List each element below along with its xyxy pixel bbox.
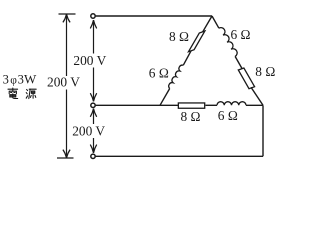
label 3φ3W source <box>3 72 37 87</box>
wire right vertical (node C down to bottom wire) <box>262 105 264 156</box>
svg-text:8 Ω: 8 Ω <box>255 64 275 79</box>
bottom leg: wire node B to resistor <box>160 104 178 106</box>
left leg: wire apex to resistor <box>203 16 213 32</box>
tick top <box>59 13 76 15</box>
inductor 6Ω (right leg) <box>219 28 237 57</box>
inductor 6Ω (left leg) <box>169 65 184 88</box>
svg-text:8 Ω: 8 Ω <box>169 29 189 44</box>
電 <box>8 88 18 90</box>
resistor 8Ω (right leg) <box>238 68 254 89</box>
right leg: wire resistor to node C <box>251 87 263 105</box>
resistor 8Ω (left leg) <box>189 31 205 52</box>
dimension line overall (left), with arrows and end ticks <box>57 14 76 158</box>
svg-text:8 Ω: 8 Ω <box>181 109 201 124</box>
svg-text:200 V: 200 V <box>72 124 105 139</box>
label 電源 (kanji drawn as strokes) <box>8 88 36 99</box>
terminal (bottom) <box>91 154 95 158</box>
inductor 6Ω (bottom leg) <box>217 102 246 106</box>
svg-text:W: W <box>24 72 37 87</box>
dimension line top-middle with arrows <box>90 20 96 102</box>
shaft lower <box>66 90 68 159</box>
arrow up <box>63 14 70 22</box>
arrow down <box>63 150 70 158</box>
left leg: wire inductor to node B <box>160 89 170 106</box>
shaft upper <box>66 14 68 76</box>
wire bottom (bottom terminal to node C) <box>96 155 263 157</box>
svg-text:3: 3 <box>18 73 24 87</box>
wire top (top terminal to apex) <box>96 15 212 17</box>
wire middle (middle terminal to node B) <box>96 104 160 106</box>
dimension line middle-bottom with arrows <box>90 109 96 153</box>
bottom leg: wire resistor to inductor <box>206 104 218 106</box>
terminal (middle) <box>91 103 95 107</box>
bottom leg: wire inductor to node C <box>246 104 263 106</box>
源 <box>26 89 27 98</box>
resistor 8Ω (bottom leg) <box>178 103 204 108</box>
svg-text:φ: φ <box>10 75 17 87</box>
svg-text:6 Ω: 6 Ω <box>149 66 169 81</box>
svg-text:6 Ω: 6 Ω <box>231 27 251 42</box>
svg-text:200 V: 200 V <box>73 53 106 68</box>
terminal (top) <box>91 14 95 18</box>
svg-text:200 V: 200 V <box>47 75 80 90</box>
right leg: wire inductor to resistor <box>235 56 242 69</box>
left leg: wire resistor to inductor <box>183 51 191 65</box>
right leg: wire apex to inductor <box>212 16 219 28</box>
tick bottom <box>57 157 74 159</box>
svg-text:3: 3 <box>3 73 9 87</box>
svg-text:6 Ω: 6 Ω <box>218 108 238 123</box>
